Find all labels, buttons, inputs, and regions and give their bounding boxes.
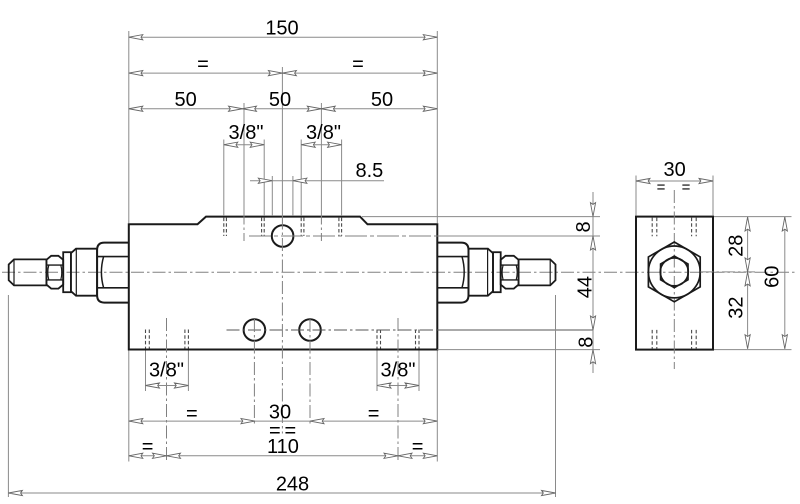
dimension 8.5 line: [250, 180, 384, 182]
svg-text:3/8": 3/8": [381, 360, 416, 382]
right stack dimension line: [592, 192, 594, 373]
top hole centerline extension to dimension: [437, 235, 600, 237]
svg-text:=: =: [412, 436, 424, 458]
side view dimension 30 line: [636, 180, 713, 182]
side view top port hidden lines: [652, 218, 696, 237]
svg-text:50: 50: [174, 89, 196, 111]
left washer: [63, 252, 71, 292]
front hole left centerline: [253, 319, 255, 426]
dimension 3/8 top port 2: [301, 144, 341, 146]
right cartridge big hex head: [437, 243, 468, 303]
top port 2 centerline: [320, 103, 322, 217]
svg-text:8: 8: [573, 221, 595, 232]
front view top port 1 hidden thread lines: [224, 218, 264, 236]
right cartridge stem: [519, 259, 556, 285]
top gauge hole: [272, 225, 294, 247]
front view bottom port right hidden thread lines: [377, 330, 419, 349]
side view body: [636, 217, 713, 350]
side view socket circle: [660, 258, 688, 286]
right jam nut: [501, 256, 519, 289]
bottom ports horizontal centerline: [227, 329, 438, 331]
left cartridge adjusting stem: [9, 259, 47, 285]
svg-text:=: =: [197, 54, 209, 76]
front view bottom port left hidden thread lines: [146, 330, 189, 349]
extension line at raised top to right dimension: [362, 216, 600, 218]
front hole right centerline: [309, 319, 311, 426]
right big hex middle facet arc: [462, 257, 464, 288]
side view outer chamfer circle: [648, 246, 700, 298]
svg-text:44: 44: [574, 276, 596, 298]
extension lines below block: [8, 295, 555, 497]
right jam nut facet lines: [501, 264, 519, 266]
left cylinder body: [71, 249, 97, 296]
side view vertical centerline: [673, 190, 675, 369]
svg-text:=: =: [352, 54, 364, 76]
side view outer hexagon: [648, 242, 700, 302]
right jam nut facet arcs: [502, 265, 503, 280]
left cylinder chamfer edge: [75, 249, 77, 296]
top hole horizontal centerline: [249, 235, 437, 237]
chained dimension eq-30-eq line: [129, 420, 438, 422]
left jam nut facet arcs: [48, 265, 49, 280]
dimension 150 line: [129, 36, 438, 38]
svg-text:=: =: [142, 436, 154, 458]
dimension equal-equal line: [129, 72, 438, 74]
svg-text:=: =: [657, 179, 666, 196]
left big hex head: [97, 243, 129, 303]
dimension 3/8 top port 1: [224, 144, 264, 146]
valve block front view outline: [129, 217, 438, 350]
front view top port 2 hidden thread lines: [301, 218, 341, 236]
svg-text:8: 8: [576, 337, 598, 348]
side view 28-32 dimension line: [747, 217, 749, 349]
svg-text:=: =: [682, 179, 691, 196]
extension line at block bottom to right dimension: [437, 349, 600, 351]
svg-text:3/8": 3/8": [149, 360, 184, 382]
svg-text:50: 50: [371, 89, 393, 111]
svg-text:3/8": 3/8": [229, 122, 264, 144]
right cylinder body: [469, 249, 494, 296]
right cylinder chamfer edge: [487, 249, 489, 296]
svg-text:=: =: [368, 403, 380, 425]
right washer: [493, 252, 501, 292]
bottom ports centerline extension to dimension: [437, 329, 593, 331]
top port 1 centerline: [243, 103, 245, 217]
chained dimension eq-110-eq line: [129, 455, 438, 457]
side view extension lines: [636, 176, 792, 350]
svg-text:30: 30: [663, 159, 685, 181]
right big hex facet lines: [437, 256, 468, 258]
svg-text:150: 150: [265, 18, 298, 40]
svg-text:50: 50: [269, 89, 291, 111]
side view inner hexagon socket: [661, 256, 688, 288]
svg-text:=: =: [186, 403, 198, 425]
svg-text:60: 60: [761, 266, 783, 288]
svg-text:248: 248: [276, 474, 309, 496]
left jam nut facet lines: [46, 264, 63, 266]
extension lines above block: [129, 31, 438, 223]
svg-text:8.5: 8.5: [355, 160, 383, 182]
svg-text:3/8": 3/8": [306, 122, 341, 144]
svg-text:28: 28: [726, 235, 748, 257]
dimension 3/8 bottom port left: [146, 385, 189, 387]
bottom port left centerline: [166, 318, 168, 462]
svg-text:32: 32: [726, 296, 748, 318]
dimension 3/8 bottom port right: [377, 385, 419, 387]
bottom port right centerline: [397, 318, 399, 462]
left big hex facet lines: [97, 256, 129, 258]
main axis centerline: [2, 271, 796, 273]
vertical centerline of block: [281, 67, 283, 217]
side view 60 dimension line: [784, 217, 786, 349]
right stem chamfer edge: [549, 259, 551, 285]
left big hex middle facet arc: [101, 257, 103, 288]
dimension 248 line: [8, 492, 555, 494]
left jam nut: [46, 256, 63, 289]
svg-text:110: 110: [267, 436, 299, 458]
left stem chamfer edge: [13, 259, 15, 285]
front port hole right: [299, 319, 321, 341]
front port hole left: [244, 319, 266, 341]
dimension 50-50-50 line: [129, 108, 438, 110]
side view bottom port hidden lines: [652, 330, 696, 349]
